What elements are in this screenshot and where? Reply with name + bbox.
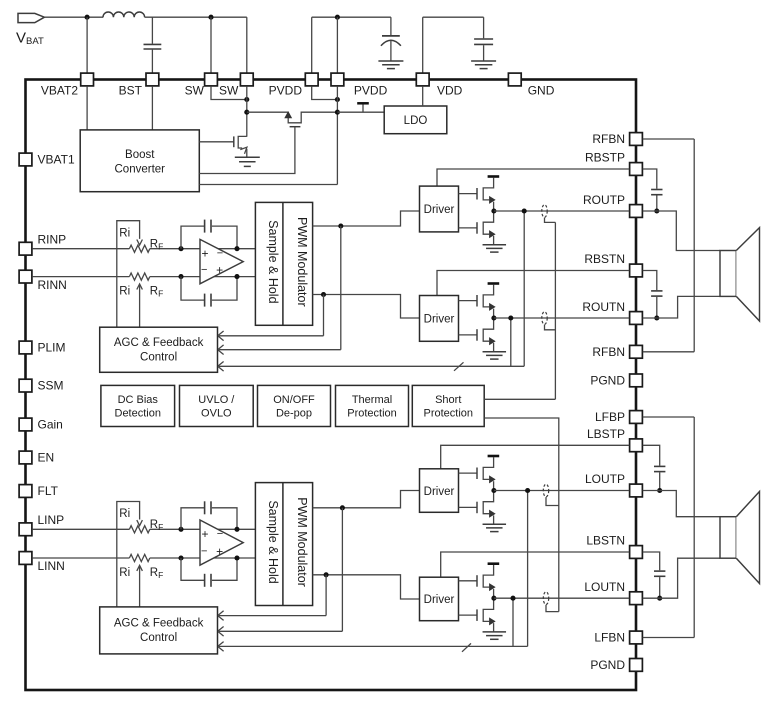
svg-text:ROUTN: ROUTN (582, 300, 625, 314)
svg-text:Thermal: Thermal (352, 394, 392, 406)
wire PVDD sense to boost converter (199, 184, 337, 186)
resistor Ri/RF (LINN) (129, 554, 149, 561)
wire RINP to op-amp (150, 248, 256, 250)
current sense ellipse (LOUTP) (543, 484, 548, 497)
svg-text:RBSTP: RBSTP (585, 151, 625, 165)
block Driver (ROUTP) (420, 186, 459, 232)
wire ROUTP to pin (494, 210, 629, 212)
arrow of Q2 (285, 112, 292, 118)
wire feedback top (R ch) (181, 226, 204, 249)
divider Sample-Hold/PWM (R ch) (282, 202, 284, 325)
wire output feedback bus (R ch) (219, 365, 524, 367)
junction LINP feedback (178, 527, 183, 532)
svg-text:Control: Control (140, 632, 177, 644)
wire bootstrap cap to LOUTN (659, 577, 661, 598)
block LDO (384, 106, 447, 134)
op-amp UR (200, 239, 243, 283)
pin RFBN (top) (630, 133, 643, 146)
svg-text:Driver: Driver (424, 594, 455, 606)
pin ROUTN (630, 312, 643, 325)
wire feedback bottom to op-amp out (L ch) (212, 558, 237, 580)
junction PWM out2 (R ch) (321, 292, 326, 297)
block Sample & Hold / PWM Modulator (R ch) (255, 202, 312, 325)
transistor low-side FET (ROUTN) (477, 318, 495, 352)
junction PVDD net (335, 97, 340, 102)
wire VBAT to inductor (45, 16, 104, 18)
block AGC & Feedback Control (L ch) (100, 607, 218, 654)
wire OUTN sense riser (R ch) (510, 318, 512, 366)
wire LOUTP to pin (494, 490, 629, 492)
wire PMOS gate to boost converter (199, 127, 295, 174)
block AGC & Feedback Control (R ch) (100, 327, 218, 372)
svg-text:−: − (217, 248, 223, 260)
block Driver (ROUTN) (420, 296, 459, 342)
capacitor bootstrap P (R ch) (651, 190, 662, 195)
block Driver (LOUTN) (420, 577, 459, 621)
svg-text:Ri: Ri (119, 508, 130, 520)
capacitor feedback top (L ch) (205, 501, 211, 514)
junction SW net at PMOS (244, 110, 249, 115)
svg-text:−: − (201, 264, 207, 276)
svg-text:LFBP: LFBP (595, 410, 625, 424)
transistor low-side FET (ROUTP) (477, 211, 495, 245)
wire feedback into AGC 2 (R ch) (219, 349, 341, 351)
ground boost NMOS source (235, 157, 260, 166)
capacitor VDD (474, 39, 493, 44)
junction above SW1 (208, 15, 213, 20)
wire feedback bottom (L ch) (181, 558, 204, 580)
junction PVDD net at PMOS drain (335, 110, 340, 115)
wire LFB top pin (643, 416, 695, 418)
wire feedback into AGC 1 (L ch) (219, 615, 326, 617)
svg-text:LDO: LDO (404, 115, 428, 127)
pin LOUTN (630, 592, 643, 605)
wire bootstrap cap to ROUTP (656, 196, 658, 212)
wire LBSTN to bootstrap cap (643, 552, 660, 570)
svg-text:Ri: Ri (119, 286, 130, 298)
wire current sense tap OUTP (R ch) (545, 218, 556, 223)
block Driver (LOUTP) (420, 469, 459, 513)
arrowhead AGC 3 (R ch) (218, 362, 224, 372)
svg-text:Sample & Hold: Sample & Hold (266, 220, 280, 303)
svg-text:PGND: PGND (590, 658, 625, 672)
wire to BST capacitor (151, 17, 153, 44)
wire SW net to PMOS source (247, 111, 288, 113)
svg-text:LBSTN: LBSTN (586, 534, 625, 548)
pin RBSTN (630, 264, 643, 277)
ground low-side FET (ROUTP) (483, 245, 507, 252)
svg-text:+: + (201, 247, 208, 261)
junction half-bridge node (ROUTP) (491, 208, 496, 213)
wire VDD pin to LDO (422, 86, 424, 106)
junction OUTN sense (L ch) (510, 596, 515, 601)
resistor Ri/RF (RINP) (129, 245, 149, 252)
wire PWM out1 feedback riser (R ch) (340, 226, 342, 350)
block UVLO / OVLO (180, 385, 254, 426)
PVDD bar (ROUTN) (488, 282, 500, 285)
wire OUTN sense riser (L ch) (512, 598, 514, 646)
wire PWM out2 to driver (L ch) (313, 575, 420, 599)
arrowhead into resistor (LINP) (137, 520, 143, 526)
junction bootstrap ROUTP (654, 208, 659, 213)
wire PVDD2 rail down (336, 86, 338, 184)
speaker (R ch) (720, 228, 760, 321)
wire driver to low-side gate (ROUTN) (459, 334, 478, 336)
svg-text:LOUTP: LOUTP (585, 472, 625, 486)
wire driver to high-side gate (LOUTP) (459, 472, 478, 474)
pin LOUTP (630, 484, 643, 497)
pin LFBP (630, 411, 643, 424)
wire feedback into AGC 1 (R ch) (219, 335, 324, 337)
svg-text:Gain: Gain (38, 418, 63, 432)
wire RBSTP to driver top (437, 169, 629, 186)
speaker (L ch) (720, 492, 760, 584)
wire ROUTN to pin (494, 317, 629, 319)
wire AGC control to Ri (LINP) (117, 502, 140, 607)
svg-text:Protection: Protection (423, 408, 473, 420)
wire sense riser (right ch) (554, 222, 556, 399)
svg-text:VBAT1: VBAT1 (38, 153, 75, 167)
wire AGC control to Ri (RINN) (139, 285, 141, 327)
wire driver to high-side gate (LOUTN) (459, 580, 478, 582)
wire SW1 to SW net (211, 86, 247, 99)
pin SSM (19, 379, 32, 392)
pin SW1 (205, 73, 218, 86)
pin VBAT2 (81, 73, 94, 86)
wire inductor to SW (145, 16, 247, 18)
svg-text:RINN: RINN (38, 278, 67, 292)
svg-text:De-pop: De-pop (276, 408, 312, 420)
wire to SW pin 2 (246, 17, 248, 73)
wire BST capacitor to BST pin (151, 50, 153, 73)
svg-text:PVDD: PVDD (354, 84, 388, 98)
wire RFB riser (693, 139, 695, 352)
pin LBSTP (630, 439, 643, 452)
wire current sense tap OUTN (R ch) (545, 325, 556, 330)
pin GND (508, 73, 521, 86)
junction LINN feedback (178, 555, 183, 560)
capacitor bootstrap N (L ch) (654, 571, 665, 576)
svg-text:Driver: Driver (424, 204, 455, 216)
pin LBSTN (630, 546, 643, 559)
junction half-bridge node (ROUTN) (491, 315, 496, 320)
svg-text:DC Bias: DC Bias (118, 394, 159, 406)
junction op-amp out bottom (R ch) (234, 274, 239, 279)
wire PWM out2 to driver (R ch) (313, 295, 420, 319)
svg-text:PLIM: PLIM (38, 341, 66, 355)
VBAT input tag (18, 13, 44, 22)
svg-text:LOUTN: LOUTN (584, 580, 625, 594)
arrowhead into resistor (LINN) (137, 565, 143, 571)
svg-text:LBSTP: LBSTP (587, 427, 625, 441)
wire AGC control to Ri (LINN) (139, 567, 141, 607)
transistor Q2 boost PMOS (288, 112, 337, 127)
junction half-bridge node (LOUTN) (491, 596, 496, 601)
wire PVDD net to LDO (337, 111, 384, 113)
svg-text:OVLO: OVLO (201, 408, 232, 420)
wire RFB top pin (643, 138, 695, 140)
pin LINP (19, 523, 32, 536)
wire LOUTP to speaker (643, 491, 720, 517)
wire PVDD1 into IC (312, 86, 338, 99)
wire to VBAT2 pin (86, 17, 88, 73)
wire OUTP sense riser (L ch) (527, 491, 529, 647)
pin Gain (19, 418, 32, 431)
transistor low-side FET (LOUTN) (477, 598, 495, 632)
wire LINP to op-amp (150, 528, 256, 530)
capacitor feedback bottom (L ch) (205, 574, 211, 587)
wire RBSTP to bootstrap cap (643, 169, 657, 189)
pin VDD (416, 73, 429, 86)
capacitor PVDD (polarized) (381, 36, 401, 46)
pin RINN (19, 270, 32, 283)
divider Sample-Hold/PWM (L ch) (282, 483, 284, 606)
wire driver to low-side gate (LOUTN) (459, 614, 478, 616)
wire boost converter to NMOS gate (199, 141, 234, 143)
svg-text:PVDD: PVDD (269, 84, 303, 98)
op-amp UL (200, 520, 243, 565)
PVDD bar (ROUTP) (488, 175, 500, 178)
wire VDD capacitor to ground (483, 45, 485, 61)
junction op-amp out bottom (L ch) (234, 555, 239, 560)
wire PVDD1 riser (311, 17, 313, 73)
wire PVDD rail top (312, 16, 391, 18)
pin FLT (19, 485, 32, 498)
junction OUTP sense (R ch) (522, 208, 527, 213)
pin PLIM (19, 341, 32, 354)
wire PWM out2 feedback riser (L ch) (325, 575, 327, 616)
svg-text:VBAT2: VBAT2 (41, 84, 78, 98)
PVDD bar (LOUTP) (488, 455, 500, 458)
wire feedback into AGC 2 (L ch) (219, 630, 342, 632)
wire LBSTP to bootstrap cap (643, 445, 660, 465)
bus slash (R ch) (454, 362, 464, 371)
junction bootstrap LOUTN (657, 596, 662, 601)
capacitor feedback bottom (R ch) (205, 294, 211, 307)
wire LFB riser (693, 417, 695, 638)
wire RBSTN to driver top (437, 271, 629, 296)
junction OUTN sense (R ch) (508, 315, 513, 320)
junction above PVDD2 (335, 15, 340, 20)
wire LOUTN to pin (494, 597, 629, 599)
wire LBSTN to driver top (441, 552, 630, 577)
svg-text:LFBN: LFBN (594, 631, 625, 645)
wire PWM out2 feedback riser (R ch) (323, 295, 325, 336)
capacitor bootstrap P (L ch) (654, 466, 665, 471)
block Thermal Protection (336, 385, 409, 426)
pin EN (19, 451, 32, 464)
svg-text:GND: GND (528, 84, 555, 98)
svg-text:Control: Control (140, 351, 177, 363)
pin RINP (19, 242, 32, 255)
wire to SW pin 1 (210, 17, 212, 73)
transistor Q1 boost NMOS (234, 136, 247, 157)
svg-text:Detection: Detection (115, 408, 161, 420)
wire PWM out1 to driver (L ch) (313, 491, 420, 508)
block DC Bias Detection (101, 385, 175, 426)
svg-text:ON/OFF: ON/OFF (273, 394, 315, 406)
junction bootstrap ROUTN (654, 315, 659, 320)
current sense ellipse (ROUTN) (542, 312, 547, 325)
junction OUTP sense (L ch) (525, 488, 530, 493)
svg-text:SSM: SSM (38, 379, 64, 393)
junction op-amp out top (L ch) (234, 527, 239, 532)
wire current sense tap OUTN (L ch) (546, 605, 559, 612)
ground PVDD cap (378, 61, 403, 69)
arrowhead into resistor (RINN) (137, 284, 143, 290)
svg-text:LINN: LINN (38, 559, 65, 573)
wire feedback top (L ch) (181, 508, 204, 530)
svg-text:ROUTP: ROUTP (583, 193, 625, 207)
capacitor BST bootstrap (144, 44, 162, 49)
arrowhead AGC 1 (R ch) (218, 331, 224, 341)
transistor low-side FET (LOUTP) (477, 491, 495, 525)
wire RBSTN to bootstrap cap (643, 271, 657, 291)
junction half-bridge node (LOUTP) (491, 488, 496, 493)
pin RBSTP (630, 163, 643, 176)
svg-text:Ri: Ri (119, 227, 130, 239)
svg-text:SW: SW (185, 84, 205, 98)
svg-text:Driver: Driver (424, 314, 455, 326)
wire to PVDD capacitor (390, 17, 392, 35)
arrowhead AGC 1 (L ch) (218, 611, 224, 621)
wire ROUTP to speaker (643, 211, 720, 251)
pin PVDD2 (331, 73, 344, 86)
inductor L1 (103, 12, 145, 17)
wire short protection sense (right ch) (484, 398, 555, 400)
svg-text:PWM Modulator: PWM Modulator (295, 217, 309, 307)
block Short Protection (412, 385, 484, 426)
wire PWM out1 to driver (R ch) (313, 211, 420, 226)
svg-text:PWM Modulator: PWM Modulator (295, 497, 309, 587)
wire PVDD2 riser (336, 17, 338, 73)
transistor high-side FET (LOUTN) (477, 565, 495, 598)
junction SW net (244, 97, 249, 102)
wire LOUTN to speaker (643, 558, 720, 598)
wire BST to boost converter (151, 86, 153, 130)
current sense ellipse (ROUTP) (542, 205, 547, 218)
svg-text:SW: SW (219, 84, 239, 98)
wire RINP from pin (32, 248, 129, 250)
wire bootstrap cap to LOUTP (659, 472, 661, 490)
pin ROUTP (630, 205, 643, 218)
block ON/OFF De-pop (258, 385, 331, 426)
svg-text:Driver: Driver (424, 486, 455, 498)
pin PGND (left ch) (630, 659, 643, 672)
wire PVDD capacitor to ground (390, 40, 392, 61)
pin PGND (right ch) (630, 374, 643, 387)
svg-text:RFBN: RFBN (592, 345, 625, 359)
svg-text:RBSTN: RBSTN (584, 252, 625, 266)
wire driver to high-side gate (ROUTN) (459, 300, 478, 302)
ground low-side FET (LOUTP) (483, 524, 507, 531)
ground low-side FET (LOUTN) (483, 632, 507, 639)
svg-text:Sample & Hold: Sample & Hold (266, 500, 280, 583)
PVDD tap symbol (357, 103, 369, 112)
wire driver to high-side gate (ROUTP) (459, 193, 478, 195)
transistor high-side FET (LOUTP) (477, 457, 495, 490)
wire SW2 down to boost NMOS drain (246, 86, 248, 137)
wire feedback bottom to op-amp out (R ch) (212, 277, 237, 301)
svg-text:Ri: Ri (119, 567, 130, 579)
PVDD bar (LOUTN) (488, 562, 500, 565)
wire feedback bottom (R ch) (181, 277, 204, 301)
svg-text:+: + (216, 544, 223, 558)
wire LINN from pin (32, 557, 129, 559)
svg-text:−: − (217, 528, 223, 540)
block Sample & Hold / PWM Modulator (L ch) (255, 483, 312, 606)
svg-text:VDD: VDD (437, 84, 463, 98)
svg-text:Boost: Boost (125, 149, 155, 161)
wire output feedback bus (L ch) (219, 645, 528, 647)
pin SW2 (240, 73, 253, 86)
arrowhead AGC 2 (L ch) (218, 627, 224, 637)
svg-text:AGC & Feedback: AGC & Feedback (114, 337, 204, 349)
svg-text:FLT: FLT (38, 484, 59, 498)
wire RINN from pin (32, 276, 129, 278)
junction bootstrap LOUTP (657, 488, 662, 493)
wire current sense tap OUTP (L ch) (546, 497, 559, 505)
transistor high-side FET (ROUTP) (477, 178, 495, 211)
junction PWM out2 (L ch) (324, 572, 329, 577)
svg-text:UVLO /: UVLO / (198, 394, 235, 406)
svg-text:EN: EN (38, 451, 55, 465)
wire OUTP sense riser (R ch) (523, 211, 525, 366)
wire feedback top to op-amp out (R ch) (212, 226, 237, 249)
wire LFB bottom pin (643, 637, 695, 639)
IC boundary box (26, 80, 637, 691)
arrowhead AGC 3 (L ch) (218, 642, 224, 652)
pin LINN (19, 552, 32, 565)
wire ROUTN to speaker (643, 296, 720, 318)
junction RINP feedback (178, 246, 183, 251)
block Boost Converter (80, 130, 199, 192)
svg-text:+: + (216, 263, 223, 277)
pin LFBN (630, 631, 643, 644)
current sense ellipse (LOUTN) (543, 592, 548, 605)
wire LBSTP to driver top (441, 445, 630, 469)
svg-text:PGND: PGND (590, 373, 625, 387)
pin PVDD1 (305, 73, 318, 86)
wire short protection sense (left ch) (484, 418, 559, 612)
wire driver to low-side gate (ROUTP) (459, 227, 478, 229)
wire LINP from pin (32, 528, 129, 530)
wire RINN to op-amp (150, 276, 256, 278)
svg-text:Protection: Protection (347, 408, 397, 420)
wire to VDD capacitor (483, 17, 485, 38)
svg-text:BST: BST (119, 84, 143, 98)
wire RFB bottom pin (643, 351, 695, 353)
bus slash (L ch) (462, 643, 471, 651)
arrowhead AGC 2 (R ch) (218, 345, 224, 355)
junction PWM out1 (L ch) (340, 505, 345, 510)
pin VBAT1 (19, 153, 32, 166)
wire VBAT2 to boost converter (86, 86, 88, 130)
svg-text:+: + (201, 527, 208, 541)
wire VDD riser (422, 17, 424, 73)
transistor high-side FET (ROUTN) (477, 285, 495, 318)
pin BST (146, 73, 159, 86)
svg-text:LINP: LINP (38, 513, 65, 527)
junction PWM out1 (R ch) (338, 223, 343, 228)
ground low-side FET (ROUTN) (483, 352, 507, 359)
svg-text:Converter: Converter (115, 163, 166, 175)
svg-text:Short: Short (435, 394, 461, 406)
junction above VBAT2 (85, 15, 90, 20)
svg-text:RFBN: RFBN (592, 132, 625, 146)
resistor Ri/RF (LINP) (129, 526, 149, 533)
junction op-amp out top (R ch) (234, 246, 239, 251)
